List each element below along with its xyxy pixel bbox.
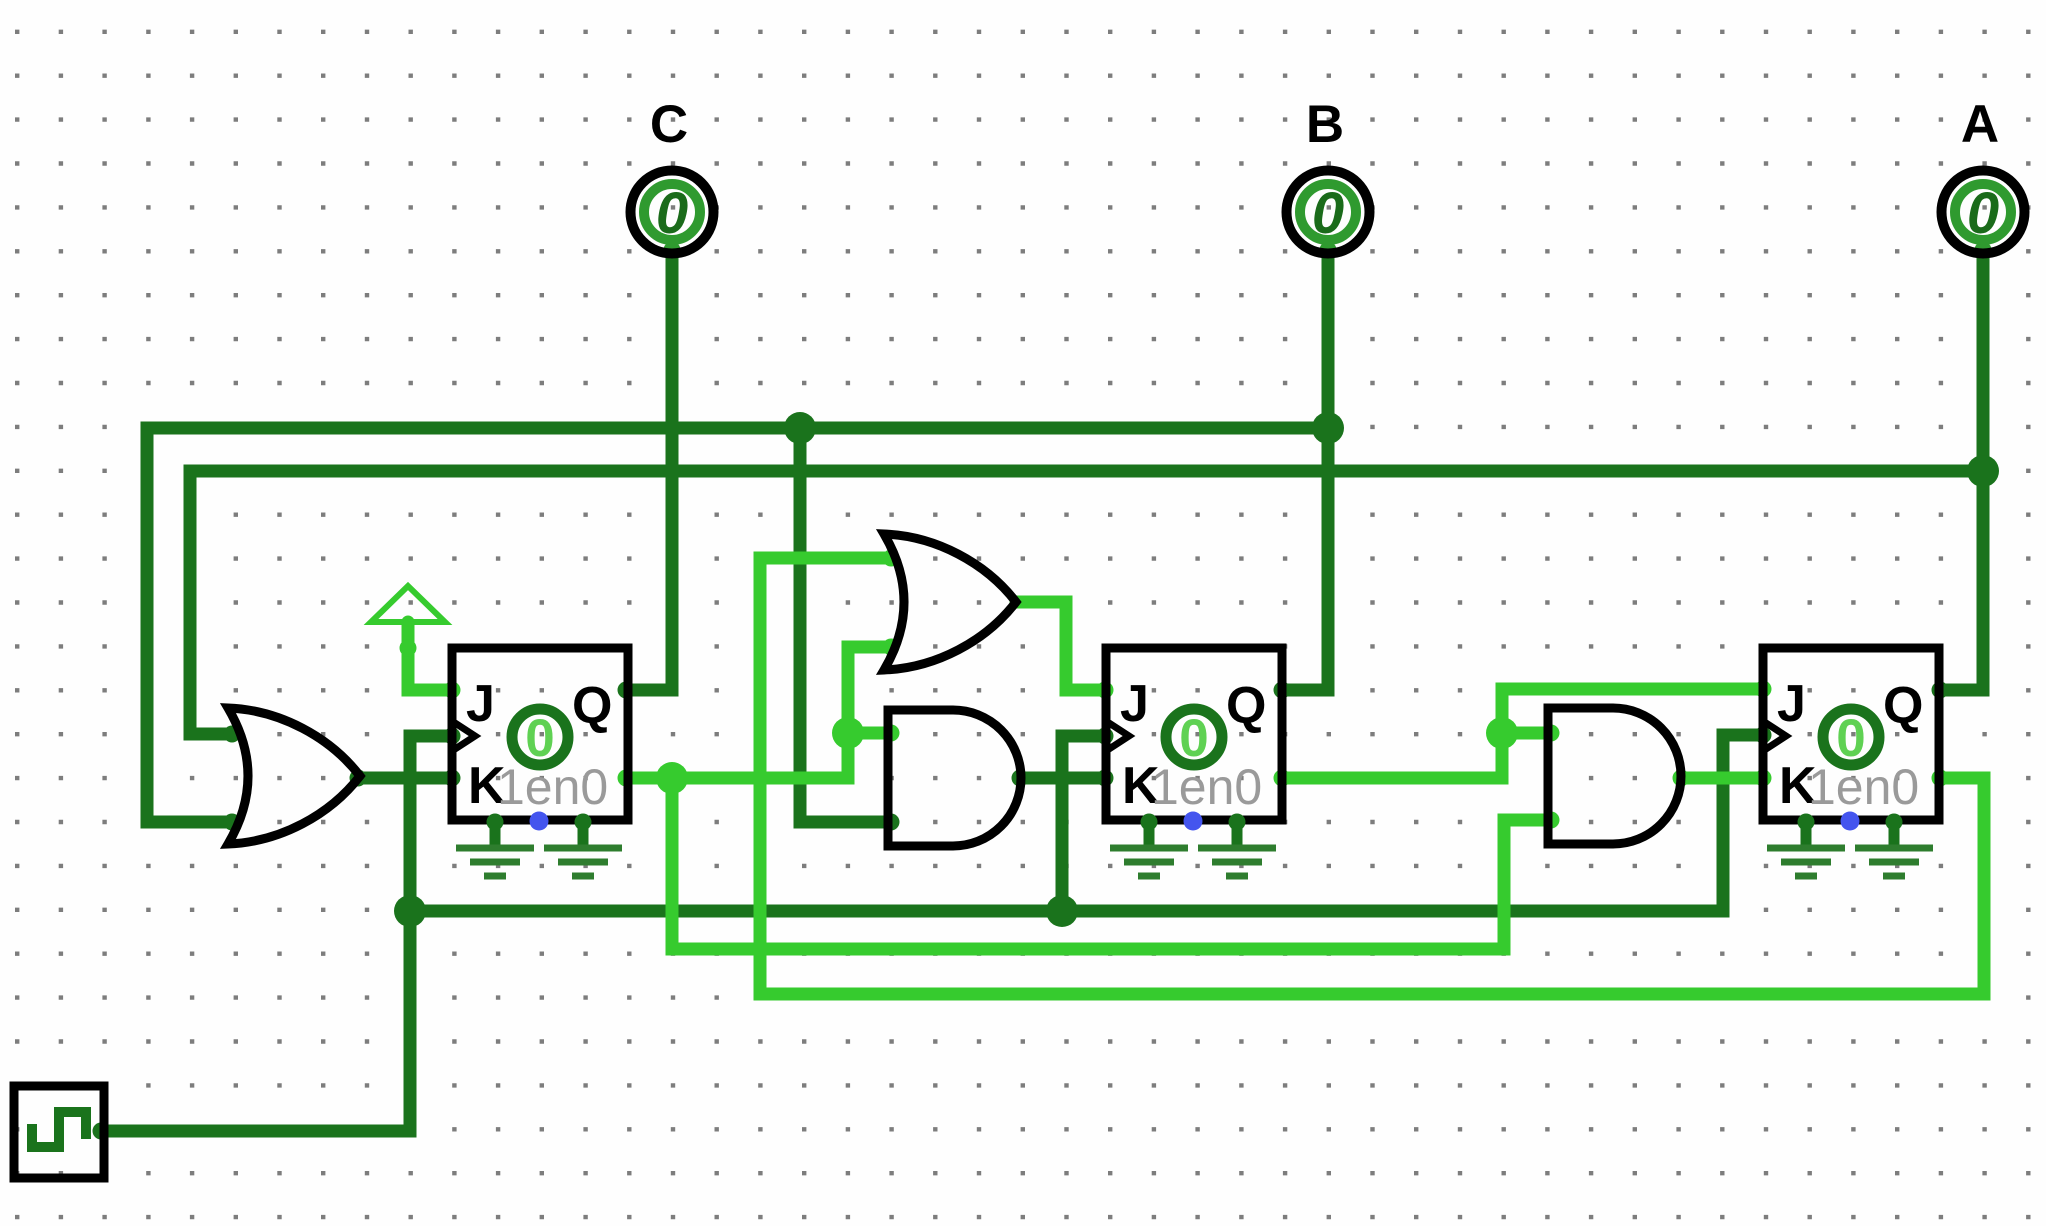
svg-text:0: 0 <box>525 709 554 768</box>
svg-text:C: C <box>650 95 688 154</box>
svg-text:Q: Q <box>572 677 612 735</box>
svg-text:J: J <box>1120 675 1149 733</box>
svg-text:0: 0 <box>1967 181 1999 246</box>
svg-text:0: 0 <box>1179 709 1208 768</box>
svg-text:0: 0 <box>1312 181 1344 246</box>
svg-text:Q: Q <box>1226 677 1266 735</box>
svg-text:Q: Q <box>1883 677 1923 735</box>
svg-text:A: A <box>1961 95 1999 154</box>
svg-text:J: J <box>1777 675 1806 733</box>
svg-text:B: B <box>1306 95 1344 154</box>
svg-text:0: 0 <box>656 181 688 246</box>
svg-text:0: 0 <box>1836 709 1865 768</box>
svg-text:J: J <box>466 675 495 733</box>
